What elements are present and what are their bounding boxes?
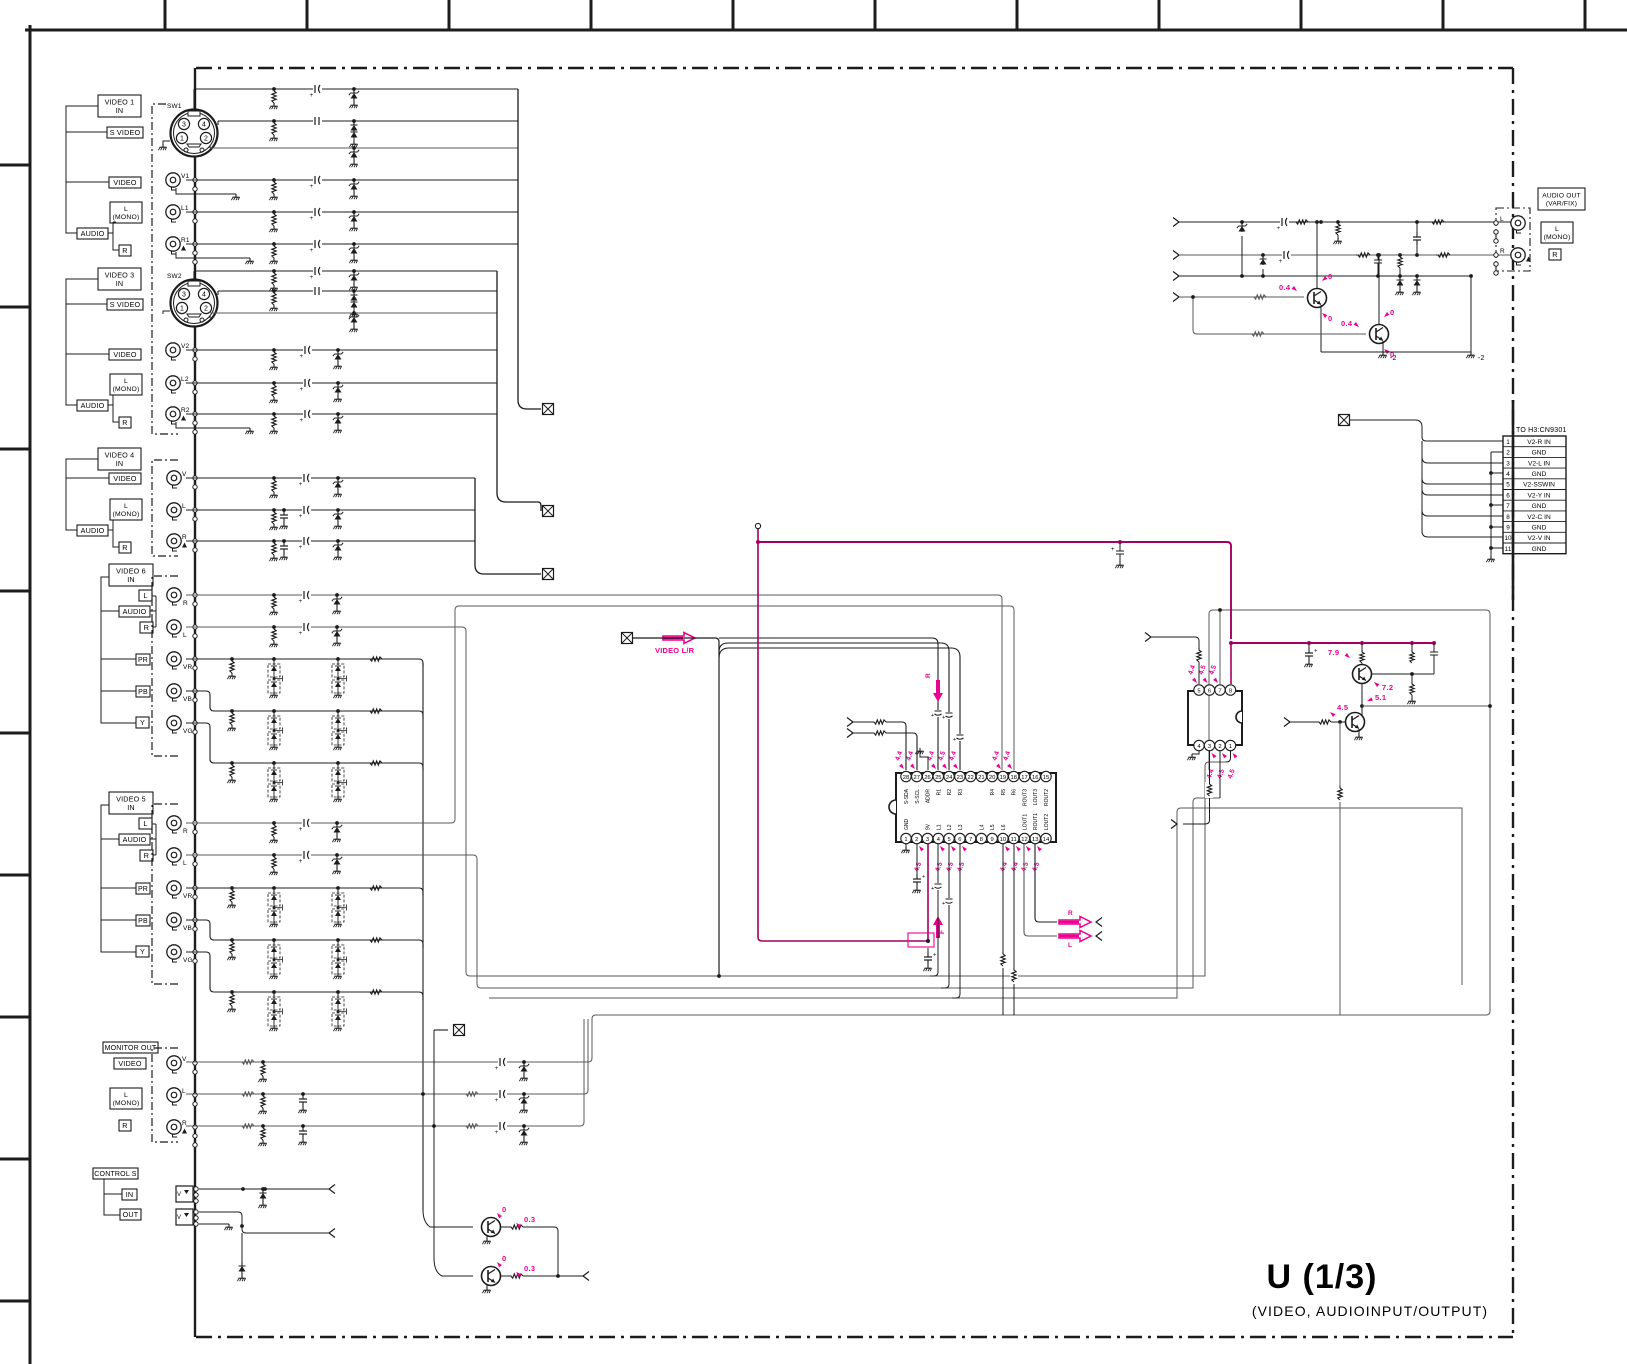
switch contact: [193, 730, 197, 734]
RCA jack at y=952: [167, 945, 181, 959]
svg-text:+: +: [310, 247, 314, 254]
svg-text:MONITOR OUT: MONITOR OUT: [105, 1045, 157, 1052]
wire video6 L row: [186, 627, 1226, 976]
RCA jack R out: [1511, 248, 1525, 262]
left ruler tick 2: [0, 306, 30, 309]
label AUDIO (video5): [119, 834, 150, 845]
top ruler tick 10: [1442, 0, 1445, 30]
IC U002 body: [1188, 691, 1242, 745]
svg-text:V2-R IN: V2-R IN: [1527, 439, 1551, 446]
resistor to ground: [272, 853, 276, 857]
svg-text:2: 2: [1506, 450, 1510, 457]
switch contact: [193, 657, 197, 661]
wire input row (C grey): [210, 312, 497, 314]
label L MONO (video1): [110, 202, 142, 223]
capacitor (series): [313, 269, 322, 273]
switch contact: [193, 421, 197, 425]
capacitor to ground: [301, 1124, 305, 1128]
svg-text:R: R: [122, 418, 127, 427]
svg-text:20: 20: [989, 775, 995, 781]
svg-text:IN: IN: [127, 803, 135, 812]
IC pin 11 (bottom): [1009, 833, 1019, 843]
ground V1: [235, 194, 237, 197]
svg-text:L1: L1: [936, 824, 942, 830]
cap right: [1432, 641, 1436, 645]
RCA jack V2 at y=350: [166, 343, 180, 357]
left ruler tick 8: [0, 1158, 30, 1161]
left ruler tick 1: [0, 164, 30, 167]
svg-text:IN: IN: [116, 106, 124, 115]
svg-text:(MONO): (MONO): [113, 214, 140, 221]
transistor Q (control, upper): [423, 1210, 473, 1227]
RCA jack at y=855: [167, 848, 181, 862]
sleeve ground: [199, 1223, 229, 1225]
switch contact: [193, 1070, 197, 1074]
signal arrow to pin27: [847, 729, 853, 738]
switch contact: [1494, 271, 1498, 275]
label AUDIO (video4): [77, 525, 108, 536]
svg-text:Y: Y: [140, 718, 145, 727]
label PB (video5): [136, 915, 150, 926]
IC2 pin 8 (top): [1225, 685, 1235, 695]
svg-text:R1: R1: [936, 789, 942, 796]
label PR (video6): [136, 654, 150, 665]
label L (video6): [139, 590, 152, 601]
series resistor: [368, 657, 382, 661]
wire input row: [186, 540, 475, 542]
svg-text:+: +: [310, 183, 314, 190]
ADDR stub ground: [920, 751, 928, 770]
svg-text:2: 2: [1218, 744, 1221, 750]
svg-text:1: 1: [1229, 744, 1232, 750]
switch contact: [193, 1102, 197, 1106]
wire video5 L row: [186, 798, 1220, 988]
IC pin 27 (top): [912, 771, 922, 781]
svg-text:0: 0: [1328, 272, 1332, 281]
pin voltage flag: [1036, 845, 1042, 852]
zener diode to ground: [335, 593, 339, 597]
IC pin 14 (bottom): [1041, 833, 1051, 843]
left ruler tick 5: [0, 732, 30, 735]
IC pin 7 (bottom): [965, 833, 975, 843]
R1 jack ground hook: [176, 252, 250, 258]
svg-text:23: 23: [957, 775, 963, 781]
capacitor (series): [313, 119, 322, 123]
label R (video6): [140, 622, 153, 633]
svg-text:VIDEO: VIDEO: [118, 1059, 142, 1068]
series resistor: [1356, 253, 1370, 257]
svg-text:L: L: [182, 1088, 186, 1095]
resistor to ground: [272, 242, 276, 246]
IC2 pin 7 (top): [1215, 685, 1225, 695]
double diode clamp: [272, 709, 276, 713]
wire input row: [186, 382, 497, 384]
junction: [1319, 220, 1323, 224]
switch contact: [1494, 230, 1498, 234]
svg-text:15: 15: [1043, 775, 1049, 781]
IC pin 9 (bottom): [987, 833, 997, 843]
cap on pin4 line: [933, 883, 943, 890]
svg-text:7: 7: [1506, 503, 1510, 510]
zener diode to ground: [336, 348, 340, 352]
switch contact: [193, 853, 197, 857]
svg-text:+: +: [300, 386, 304, 393]
resistor to ground: [272, 821, 276, 825]
svg-text:8: 8: [1229, 689, 1232, 695]
top ruler tick 7: [1016, 0, 1019, 30]
cap on pin24 line: [944, 712, 954, 719]
cap to ground on rail: [1307, 641, 1311, 645]
off-page connector: [543, 506, 554, 517]
svg-text:+: +: [299, 630, 303, 637]
switch contact: [193, 689, 197, 693]
svg-text:0: 0: [1390, 308, 1394, 317]
svg-text:27: 27: [914, 775, 920, 781]
svg-text:VIDEO: VIDEO: [113, 178, 137, 187]
svg-text:7.2: 7.2: [1382, 683, 1393, 692]
svg-text:L: L: [124, 503, 128, 510]
double diode clamp: [336, 990, 340, 994]
resistor to row276: [1398, 253, 1402, 257]
zener diode to ground: [352, 178, 356, 182]
wires into CN9301: [1350, 420, 1503, 441]
svg-text:LOUT2: LOUT2: [1044, 814, 1050, 830]
bracket wires video6 group: [101, 577, 136, 723]
wire input row: [218, 290, 497, 292]
svg-text:L: L: [183, 860, 187, 867]
switch contact: [193, 593, 197, 597]
svg-text:(VAR/FIX): (VAR/FIX): [1546, 200, 1577, 207]
diode below row276 b: [1415, 274, 1419, 278]
top ruler tick 8: [1158, 0, 1161, 30]
label AUDIO OUT VAR/FIX: [1538, 188, 1585, 210]
svg-text:LOUT3: LOUT3: [1033, 789, 1039, 805]
svg-text:ADDR: ADDR: [926, 789, 932, 804]
series resistor: [464, 1124, 478, 1128]
switch contact: [193, 959, 197, 963]
top ruler tick 4: [590, 0, 593, 30]
wire loop inner: [489, 808, 1462, 998]
pin5 wire to bus: [941, 844, 949, 988]
svg-text:VB: VB: [183, 696, 192, 703]
svg-text:+: +: [299, 826, 303, 833]
switch contact: [193, 517, 197, 521]
svg-text:L: L: [124, 206, 128, 213]
svg-text:4: 4: [202, 122, 206, 129]
pin voltage flag: [1004, 845, 1010, 852]
wire video6 R row (long grey to IC pin19): [186, 595, 1002, 770]
svg-text:L: L: [183, 632, 187, 639]
pin voltage flag: [1231, 752, 1237, 759]
RCA jack R at y=541: [167, 534, 181, 548]
resistor: [1338, 786, 1342, 800]
svg-text:AUDIO OUT: AUDIO OUT: [1542, 192, 1580, 199]
wire bundle to IC (1): [719, 638, 938, 770]
IC pin 24 (top): [944, 771, 954, 781]
svg-text:R3: R3: [958, 789, 964, 796]
RCA jack at y=627: [167, 620, 181, 634]
switch contact: [193, 260, 197, 264]
svg-text:R6: R6: [1012, 789, 1018, 796]
svg-text:+: +: [1277, 225, 1281, 232]
wire input row: [186, 413, 497, 415]
wire bundle to IC (3): [719, 648, 960, 770]
svg-text:7: 7: [1218, 689, 1221, 695]
switch contact: [193, 219, 197, 223]
ground R1: [249, 258, 251, 261]
zener to ground row L: [1240, 220, 1244, 224]
cap to row276: [1376, 253, 1380, 257]
vertical bus video1 block: [518, 89, 541, 409]
zener diode to ground: [335, 625, 339, 629]
switch contact: [193, 485, 197, 489]
svg-text:0: 0: [502, 1254, 506, 1263]
resistor to ground: [261, 1092, 265, 1096]
double diode clamp: [272, 938, 276, 942]
zener diode to ground: [522, 1124, 526, 1128]
RCA jack L at y=510: [167, 503, 181, 517]
zener diode to ground: [335, 853, 339, 857]
V1 jack ground hook: [176, 188, 236, 194]
svg-text:2: 2: [204, 306, 208, 313]
label VIDEO (video4): [109, 473, 141, 484]
capacitor (series): [302, 476, 311, 480]
wire component-video row: [186, 920, 419, 940]
double diode clamp: [336, 886, 340, 890]
resistor to ground: [230, 761, 234, 765]
IC U001 body: [896, 773, 1056, 842]
label AUDIO (video1): [77, 228, 108, 239]
switch contact: [193, 210, 197, 214]
svg-text:1: 1: [180, 306, 184, 313]
switch contact: [193, 178, 197, 182]
label R (monitor): [119, 1120, 131, 1131]
svg-text:9V: 9V: [926, 823, 932, 830]
svg-text:R2: R2: [181, 407, 190, 414]
bus corner: [419, 711, 423, 719]
monitor junction risers: [421, 1092, 425, 1096]
label Y (video5): [136, 946, 149, 957]
dash-dot enclosure monitor jacks: [152, 1048, 178, 1142]
bracket wires video3 group: [66, 279, 109, 405]
wire to CN9301 pin 5: [1422, 478, 1503, 484]
RCA jack V1 at y=180: [166, 173, 180, 187]
svg-text:0.3: 0.3: [524, 1264, 535, 1273]
pin voltage flag: [931, 764, 937, 771]
svg-text:+: +: [310, 92, 314, 99]
IC pin 6 (bottom): [955, 833, 965, 843]
capacitor (series): [302, 853, 311, 857]
IC pin 5 (bottom): [944, 833, 954, 843]
decoupling cap below: [927, 948, 929, 952]
svg-text:PB: PB: [138, 689, 148, 696]
off-page connector VIDEO L/R: [622, 633, 633, 644]
switch contact: [193, 1061, 197, 1065]
IC pin 16 (top): [1030, 771, 1040, 781]
switch contact: [193, 508, 197, 512]
svg-text:11: 11: [1505, 546, 1512, 553]
zener diode to ground: [336, 508, 340, 512]
svg-text:L: L: [1068, 942, 1072, 949]
svg-text:+: +: [495, 1097, 499, 1104]
switch contact: [1494, 239, 1498, 243]
magenta direction arrow: [663, 633, 695, 644]
zener diode to ground: [352, 210, 356, 214]
purple supply rail: [758, 529, 928, 941]
svg-text:+: +: [299, 544, 303, 551]
svg-text:L1: L1: [181, 205, 189, 212]
svg-text:AUDIO: AUDIO: [81, 526, 105, 535]
vertical cap mid: [1415, 220, 1419, 224]
diode row R: [1261, 253, 1265, 257]
pin voltage flag: [899, 764, 905, 771]
top ruler tick 2: [306, 0, 309, 30]
IC pin 22 (top): [965, 771, 975, 781]
svg-text:GND: GND: [1532, 471, 1547, 478]
RCA jack at y=723: [167, 716, 181, 730]
wire input row: [194, 88, 518, 90]
IC pin 20 (top): [987, 771, 997, 781]
svg-text:PR: PR: [138, 657, 148, 664]
RCA jack V at y=1063: [167, 1056, 181, 1070]
arrow out L: [1096, 932, 1102, 941]
svg-text:V2-V IN: V2-V IN: [1527, 535, 1550, 542]
pin voltage flag: [1210, 752, 1216, 759]
svg-text:5: 5: [1506, 482, 1510, 489]
IC pin 4 (bottom): [933, 833, 943, 843]
vertical bus video3 block: [497, 271, 541, 511]
bus corner: [419, 659, 423, 667]
wire bundle to IC (2): [719, 643, 949, 770]
svg-text:+: +: [299, 858, 303, 865]
switch contact: [193, 830, 197, 834]
series resistor: [368, 990, 382, 994]
Q4 base feed: [1284, 718, 1290, 727]
resistor to ground: [230, 886, 234, 890]
svg-text:GND: GND: [1532, 525, 1547, 532]
pin12 wire to L output: [1024, 844, 1057, 936]
IC pin 12 (bottom): [1019, 833, 1029, 843]
capacitor to ground: [301, 1092, 305, 1096]
dash-dot enclosure video1/3 jacks: [152, 104, 178, 434]
pin voltage flag: [1192, 678, 1198, 685]
resistor to ground: [230, 990, 234, 994]
svg-text:14: 14: [1043, 837, 1050, 843]
series resistor: [368, 938, 382, 942]
zener diode to ground: [335, 821, 339, 825]
vertical bus video4 block: [475, 478, 541, 574]
RCA jack at y=823: [167, 816, 181, 830]
IC2 pin 6 (top): [1204, 685, 1214, 695]
resistor to ground: [230, 709, 234, 713]
IC pin 3 (bottom): [922, 833, 932, 843]
svg-text:11: 11: [1011, 837, 1017, 843]
arrow out pin3: [1183, 820, 1210, 824]
resistor to ground: [272, 87, 276, 91]
wire input row: [186, 509, 475, 511]
IC pin 21 (top): [976, 771, 986, 781]
svg-text:3: 3: [182, 122, 186, 129]
pin voltage flag: [939, 845, 945, 852]
resistor to ground: [272, 289, 276, 293]
svg-text:28: 28: [903, 775, 909, 781]
cap to ground on 9V rail: [1116, 542, 1124, 562]
pin1 wire: [1226, 751, 1231, 762]
capacitor to ground: [282, 539, 286, 543]
series resistor: [872, 720, 886, 724]
dash-dot enclosure video4 jacks: [152, 460, 178, 556]
pin voltage flag: [961, 845, 967, 852]
wire component-video row: [186, 691, 419, 711]
pin voltage flag: [996, 764, 1002, 771]
RCA jack at y=888: [167, 881, 181, 895]
pin6 riser: [1208, 614, 1210, 684]
node 5.1 wire right: [1362, 705, 1490, 707]
svg-text:S VIDEO: S VIDEO: [110, 128, 141, 137]
wire video l/r down to bus: [633, 638, 719, 976]
svg-text:+: +: [953, 737, 956, 743]
series resistor: [368, 709, 382, 713]
svg-text:R: R: [182, 534, 187, 541]
bus corner: [419, 940, 423, 948]
junction dots purple: [756, 540, 760, 544]
svg-text:V2-Y IN: V2-Y IN: [1528, 492, 1551, 499]
svg-text:SW1: SW1: [167, 103, 182, 110]
IC pin 18 (top): [1009, 771, 1019, 781]
svg-text:3: 3: [1208, 744, 1211, 750]
schematic border top (dash-dot): [196, 67, 1513, 69]
svg-text:F: F: [939, 930, 946, 934]
svg-text:S-SCL: S-SCL: [915, 789, 921, 804]
svg-text:L: L: [143, 819, 147, 828]
svg-text:PB: PB: [138, 918, 148, 925]
capacitor (series): [302, 625, 311, 629]
series resistor: [1294, 220, 1308, 224]
switch contact: [193, 1093, 197, 1097]
switch contact: [193, 242, 197, 246]
svg-text:7.9: 7.9: [1328, 648, 1339, 657]
resistor to ground: [230, 938, 234, 942]
svg-text:R: R: [122, 543, 127, 552]
svg-text:+: +: [300, 417, 304, 424]
zener diode to ground: [336, 412, 340, 416]
RCA jack L at y=1095: [167, 1088, 181, 1102]
series resistor: [240, 1124, 254, 1128]
switch contact: [193, 381, 197, 385]
double diode clamp: [336, 938, 340, 942]
capacitor (series): [303, 412, 312, 416]
magenta L output arrow: [1059, 931, 1091, 942]
top ruler tick 3: [448, 0, 451, 30]
SW2 lead wires: [194, 271, 218, 318]
switch contact: [193, 625, 197, 629]
bus corner: [419, 992, 423, 1000]
switch contact: [193, 895, 197, 899]
svg-text:R: R: [144, 851, 149, 860]
svg-text:+: +: [1314, 649, 1318, 655]
top ruler tick 11: [1584, 0, 1587, 30]
switch contact: [193, 821, 197, 825]
svg-text:12: 12: [1021, 837, 1027, 843]
switch contact: [193, 548, 197, 552]
series resistor: [240, 1092, 254, 1096]
label IN (control s): [122, 1189, 137, 1200]
svg-text:R1: R1: [181, 237, 190, 244]
svg-text:R5: R5: [1001, 789, 1007, 796]
wire component-video row: [186, 658, 419, 660]
svg-text:0: 0: [1328, 314, 1332, 323]
switch contact: [193, 476, 197, 480]
